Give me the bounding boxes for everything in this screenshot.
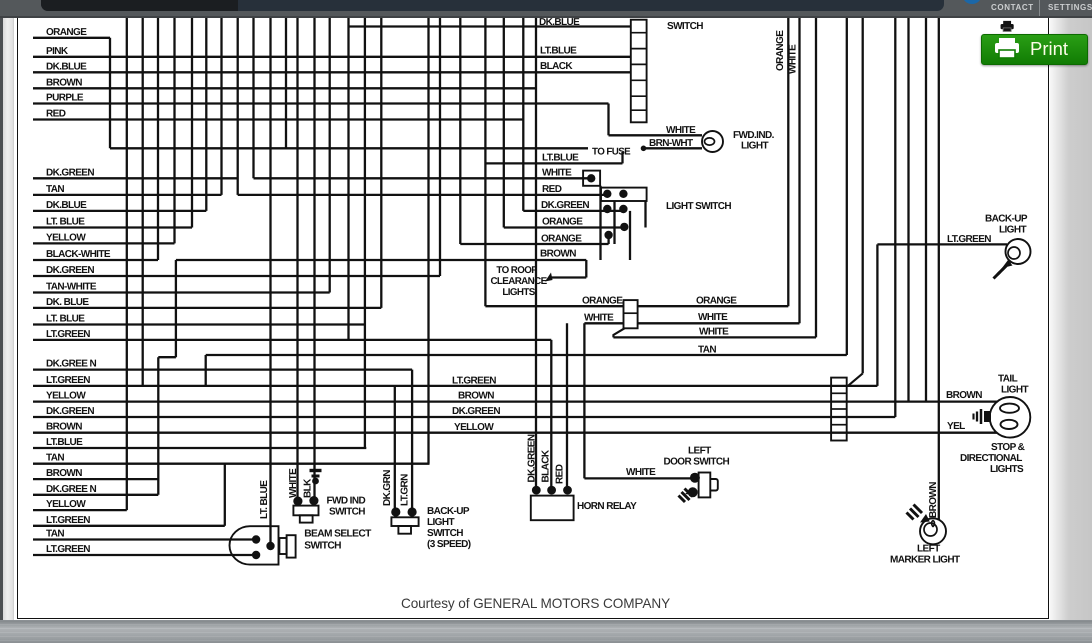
svg-text:HORN RELAY: HORN RELAY: [577, 501, 637, 512]
svg-text:LIGHTS: LIGHTS: [990, 464, 1024, 475]
svg-text:WHITE: WHITE: [584, 313, 614, 324]
svg-text:DK. BLUE: DK. BLUE: [46, 297, 89, 308]
svg-text:TAN: TAN: [46, 184, 64, 195]
svg-text:DK.GREEN: DK.GREEN: [46, 406, 94, 417]
svg-text:BROWN: BROWN: [946, 390, 982, 401]
svg-text:LEFT: LEFT: [917, 544, 940, 555]
svg-text:DK.GREEN: DK.GREEN: [541, 200, 589, 211]
svg-text:DK.GREEN: DK.GREEN: [46, 265, 94, 276]
svg-text:DK.GREEN: DK.GREEN: [452, 406, 500, 417]
svg-text:LT.GREEN: LT.GREEN: [46, 515, 90, 526]
svg-text:ORANGE: ORANGE: [46, 27, 87, 38]
svg-text:LT. BLUE: LT. BLUE: [259, 480, 270, 519]
svg-text:LIGHT: LIGHT: [999, 225, 1026, 236]
svg-text:LT.BLUE: LT.BLUE: [46, 437, 83, 448]
svg-text:LT.GREEN: LT.GREEN: [46, 375, 90, 386]
svg-text:LT.GREEN: LT.GREEN: [947, 234, 991, 245]
svg-text:YELLOW: YELLOW: [454, 422, 494, 433]
svg-text:TAN-WHITE: TAN-WHITE: [46, 282, 97, 293]
svg-text:RED: RED: [46, 109, 66, 120]
svg-text:ORANGE: ORANGE: [542, 217, 583, 228]
svg-text:LIGHT: LIGHT: [1001, 385, 1028, 396]
svg-text:ORANGE: ORANGE: [582, 296, 623, 307]
svg-text:BACK-UP: BACK-UP: [985, 214, 1028, 225]
svg-text:RED: RED: [542, 184, 562, 195]
svg-text:TAN: TAN: [46, 529, 64, 540]
svg-text:DK.GRN: DK.GRN: [382, 470, 393, 506]
svg-text:DK.GREEN: DK.GREEN: [46, 167, 94, 178]
svg-text:YELLOW: YELLOW: [46, 499, 86, 510]
svg-text:WHITE: WHITE: [788, 44, 799, 74]
svg-text:LIGHT SWITCH: LIGHT SWITCH: [666, 201, 731, 212]
svg-text:LT. BLUE: LT. BLUE: [46, 314, 85, 325]
svg-text:DK.BLUE: DK.BLUE: [46, 61, 87, 72]
svg-text:BLACK-WHITE: BLACK-WHITE: [46, 249, 111, 260]
svg-text:BEAM SELECT: BEAM SELECT: [304, 529, 372, 540]
svg-text:DOOR SWITCH: DOOR SWITCH: [664, 457, 730, 468]
svg-text:BLACK: BLACK: [541, 449, 552, 482]
svg-text:RED: RED: [555, 464, 566, 484]
svg-text:SWITCH: SWITCH: [304, 541, 341, 552]
svg-text:BLACK: BLACK: [540, 61, 573, 72]
svg-text:LT. BLUE: LT. BLUE: [46, 217, 85, 228]
svg-text:WHITE: WHITE: [542, 168, 572, 179]
svg-text:BROWN: BROWN: [928, 482, 939, 518]
svg-text:MARKER LIGHT: MARKER LIGHT: [890, 555, 960, 566]
svg-text:DK.GREE N: DK.GREE N: [46, 484, 97, 495]
svg-text:ORANGE: ORANGE: [775, 30, 786, 71]
svg-text:LT.BLUE: LT.BLUE: [540, 46, 577, 57]
svg-text:TO ROOF: TO ROOF: [496, 265, 537, 276]
svg-text:PURPLE: PURPLE: [46, 93, 84, 104]
svg-text:BROWN: BROWN: [540, 249, 576, 260]
svg-text:SWITCH: SWITCH: [329, 507, 365, 518]
svg-text:LT.GREEN: LT.GREEN: [46, 544, 90, 555]
svg-text:BACK-UP: BACK-UP: [427, 506, 470, 517]
svg-text:TAN: TAN: [46, 453, 64, 464]
svg-text:YELLOW: YELLOW: [46, 391, 86, 402]
svg-text:PINK: PINK: [46, 46, 69, 57]
svg-text:BRN-WHT: BRN-WHT: [649, 138, 693, 149]
svg-text:WHITE: WHITE: [288, 468, 299, 498]
svg-text:BROWN: BROWN: [46, 468, 82, 479]
svg-text:TAN: TAN: [698, 344, 716, 355]
svg-text:WHITE: WHITE: [666, 125, 696, 136]
svg-text:STOP &: STOP &: [991, 442, 1025, 453]
svg-text:FWD IND: FWD IND: [327, 496, 366, 507]
svg-text:TAIL: TAIL: [998, 374, 1018, 385]
svg-text:BROWN: BROWN: [46, 422, 82, 433]
svg-text:DK.GREEN: DK.GREEN: [527, 434, 538, 482]
svg-text:SWITCH: SWITCH: [427, 528, 463, 539]
svg-text:LT.BLUE: LT.BLUE: [542, 153, 579, 164]
svg-text:WHITE: WHITE: [698, 312, 728, 323]
svg-text:ORANGE: ORANGE: [696, 296, 737, 307]
svg-text:(3 SPEED): (3 SPEED): [427, 539, 471, 550]
svg-text:DIRECTIONAL: DIRECTIONAL: [960, 453, 1022, 464]
svg-text:LT.GREEN: LT.GREEN: [452, 375, 496, 386]
svg-text:WHITE: WHITE: [699, 327, 729, 338]
svg-text:SWITCH: SWITCH: [667, 21, 703, 32]
svg-text:BLK: BLK: [303, 478, 314, 498]
svg-text:LT.GRN: LT.GRN: [400, 474, 411, 506]
svg-text:WHITE: WHITE: [626, 467, 656, 478]
svg-text:TO FUSE: TO FUSE: [592, 147, 631, 158]
svg-text:YELLOW: YELLOW: [46, 232, 86, 243]
svg-text:BROWN: BROWN: [458, 391, 494, 402]
svg-text:LT.GREEN: LT.GREEN: [46, 329, 90, 340]
svg-text:BROWN: BROWN: [46, 77, 82, 88]
svg-text:DK.BLUE: DK.BLUE: [539, 17, 580, 28]
svg-text:CLEARANCE: CLEARANCE: [490, 276, 547, 287]
svg-text:LIGHT: LIGHT: [427, 517, 454, 528]
svg-text:DK.GREE N: DK.GREE N: [46, 359, 97, 370]
svg-text:LEFT: LEFT: [688, 446, 711, 457]
svg-text:YEL: YEL: [947, 421, 965, 432]
svg-text:LIGHT: LIGHT: [741, 141, 768, 152]
svg-text:DK.BLUE: DK.BLUE: [46, 200, 87, 211]
svg-text:FWD.IND.: FWD.IND.: [733, 130, 775, 141]
svg-text:LIGHTS: LIGHTS: [502, 287, 535, 298]
svg-text:ORANGE: ORANGE: [541, 233, 582, 244]
